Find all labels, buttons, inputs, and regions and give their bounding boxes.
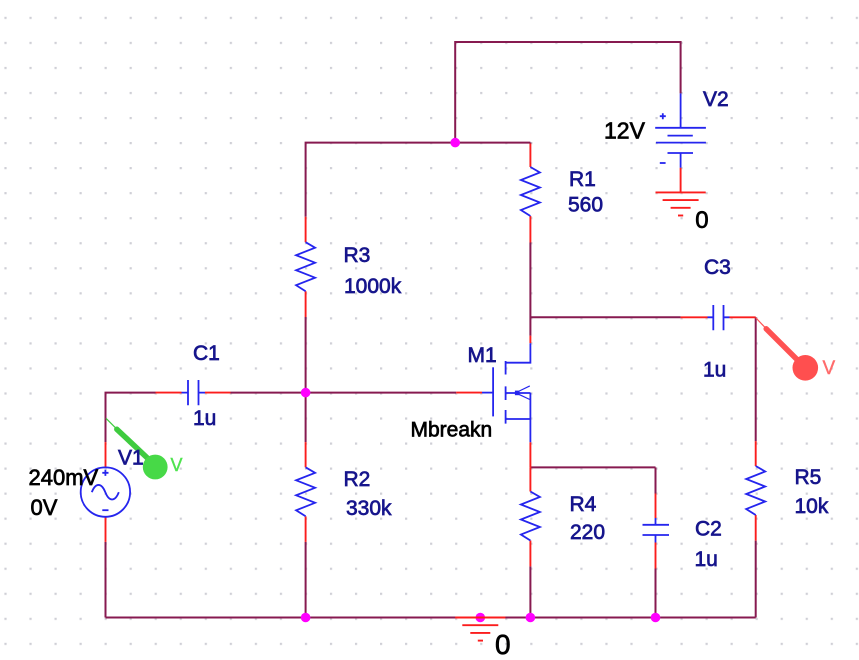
wire stub R1 pin1 xyxy=(529,142,531,145)
ground 0 at V2 minus xyxy=(656,168,706,216)
label C2 designator xyxy=(695,518,722,541)
label M1 designator xyxy=(468,344,497,367)
label R1 value xyxy=(568,194,603,217)
label ground 0 at bottom xyxy=(495,629,511,660)
green probe V label xyxy=(171,455,183,475)
svg-text:1000k: 1000k xyxy=(344,275,402,298)
svg-text:240mV: 240mV xyxy=(29,465,99,490)
junction R2/ground rail xyxy=(301,613,311,623)
svg-text:0: 0 xyxy=(495,629,511,660)
svg-text:C2: C2 xyxy=(695,518,722,541)
wire R5 bottom to ground rail xyxy=(755,541,757,618)
svg-text:220: 220 xyxy=(570,521,605,544)
svg-text:V2: V2 xyxy=(703,88,729,111)
label R3 value xyxy=(344,275,402,298)
label R1 designator xyxy=(569,168,596,191)
svg-text:R4: R4 xyxy=(570,493,597,516)
resistor R1 xyxy=(521,144,540,243)
capacitor C3 xyxy=(681,305,756,330)
label V2 designator xyxy=(703,88,729,111)
resistor R5 xyxy=(746,441,765,540)
label R4 value xyxy=(570,521,605,544)
wire R2 bottom to ground rail xyxy=(305,542,307,618)
junction node VDD rail xyxy=(450,138,460,148)
source V2 (12V DC battery) xyxy=(655,93,706,167)
label R4 designator xyxy=(570,493,597,516)
label V1 designator xyxy=(118,447,144,470)
capacitor C2 xyxy=(643,494,670,569)
svg-text:1u: 1u xyxy=(193,407,216,430)
wire C2 bottom to ground rail xyxy=(655,569,657,618)
junction C2/ground rail xyxy=(651,613,661,623)
junction ground symbol xyxy=(476,613,486,623)
svg-text:560: 560 xyxy=(568,194,603,217)
wire R4 bottom to ground rail xyxy=(529,566,531,617)
label R2 value xyxy=(346,497,392,520)
svg-text:330k: 330k xyxy=(346,497,392,520)
svg-text:1u: 1u xyxy=(703,359,726,382)
ground 0 at bottom rail xyxy=(455,618,505,641)
label M1 model Mbreakn xyxy=(411,419,493,442)
wire C1 right to gate junction xyxy=(231,392,306,394)
wire R3 top to R1 top (VDD rail) xyxy=(306,143,531,217)
label V1 value 240mV xyxy=(29,465,99,490)
wire C1 left to V1 plus xyxy=(106,393,156,443)
wire R3 bottom to gate junction xyxy=(305,317,307,393)
wire source node to C2 top xyxy=(530,466,655,468)
wire V1 minus down to ground rail xyxy=(105,542,107,618)
svg-text:R1: R1 xyxy=(569,168,596,191)
label C1 value xyxy=(193,407,216,430)
svg-text:R3: R3 xyxy=(344,244,371,267)
source V1 (AC sine source) xyxy=(81,442,130,542)
wire ground rail (bottom) xyxy=(106,617,756,619)
svg-text:R2: R2 xyxy=(344,468,371,491)
label C3 value xyxy=(703,359,726,382)
wire VDD rail up and over to V2 plus xyxy=(455,42,680,143)
svg-text:1u: 1u xyxy=(695,548,718,571)
label C1 designator xyxy=(193,342,220,365)
svg-text:0: 0 xyxy=(695,207,708,234)
resistor R2 xyxy=(296,442,315,542)
label V1 offset 0V xyxy=(31,495,58,520)
wire gate node junction to M1 gate xyxy=(306,392,457,394)
resistor R3 xyxy=(296,217,315,317)
svg-text:M1: M1 xyxy=(468,344,497,367)
label R5 value xyxy=(795,495,829,518)
wire C3 right down to R5 top xyxy=(755,317,757,441)
svg-text:C1: C1 xyxy=(193,342,220,365)
label C2 value xyxy=(695,548,718,571)
junction node gate xyxy=(301,388,311,398)
label R5 designator xyxy=(795,466,822,489)
label V2 value 12V xyxy=(604,118,646,144)
junction R4/ground rail xyxy=(526,613,536,623)
svg-text:C3: C3 xyxy=(704,256,731,279)
svg-text:0V: 0V xyxy=(31,495,58,520)
wire drain node to C3 left xyxy=(530,316,680,318)
voltage probe (red) on output node xyxy=(756,318,818,381)
svg-text:R5: R5 xyxy=(795,466,822,489)
label R2 designator xyxy=(344,468,371,491)
red probe V label xyxy=(823,358,836,379)
label ground 0 at V2 xyxy=(695,207,708,234)
label C3 designator xyxy=(704,256,731,279)
svg-text:10k: 10k xyxy=(795,495,829,518)
svg-text:Mbreakn: Mbreakn xyxy=(411,419,493,442)
wire C2 top lead xyxy=(655,467,657,493)
svg-text:12V: 12V xyxy=(604,118,646,144)
capacitor C1 xyxy=(156,380,231,405)
voltage probe (green) on V1 input node xyxy=(106,418,168,479)
resistor R4 xyxy=(521,467,540,566)
svg-text:V1: V1 xyxy=(118,447,144,470)
svg-text:V: V xyxy=(171,455,183,475)
label R3 designator xyxy=(344,244,371,267)
wire R1 bottom to M1 drain xyxy=(529,243,531,336)
wire gate junction down to R2 top xyxy=(305,393,307,443)
svg-text:V: V xyxy=(823,358,836,379)
transistor M1 (NMOS Mbreakn) xyxy=(456,336,530,468)
